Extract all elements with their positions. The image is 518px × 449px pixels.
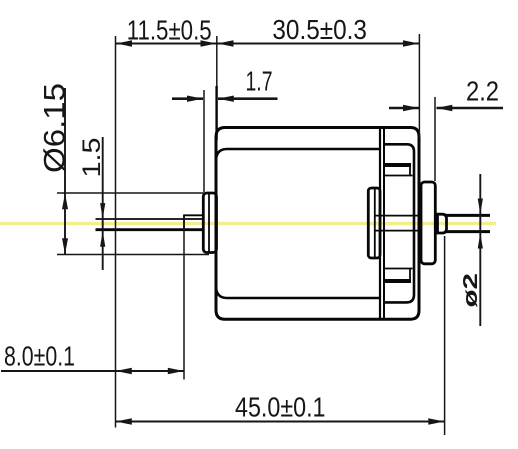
left shaft top line [96, 218, 205, 220]
front flange inner line [208, 194, 210, 252]
dimension 8.0±0.1 [1, 370, 184, 372]
svg-text:30.5±0.3: 30.5±0.3 [272, 14, 367, 45]
svg-text:ø2: ø2 [460, 273, 482, 308]
rear bearing hub [421, 182, 435, 264]
extension line flange front [203, 90, 205, 192]
end cap inner profile [384, 144, 414, 302]
svg-text:45.0±0.1: 45.0±0.1 [235, 392, 326, 423]
seam vertical right [383, 129, 385, 318]
extension line front face [216, 36, 218, 88]
extension line collar end [444, 236, 446, 435]
dimension 30.5±0.3 [217, 43, 419, 45]
svg-text:2.2: 2.2 [466, 76, 499, 107]
front face upper edge line [215, 86, 217, 140]
brush notch bottom thin line [384, 268, 413, 270]
dimension 2.2 [389, 107, 419, 110]
dimension 1.7 [172, 97, 203, 100]
dimension Ø6.15 [64, 88, 66, 255]
front boss left edge [183, 214, 185, 231]
shaft through cap bottom [375, 230, 421, 232]
internal rear bearing block [368, 188, 380, 258]
dimension 11.5±0.5 [116, 43, 218, 45]
svg-text:1.5: 1.5 [78, 138, 106, 178]
right shaft bottom line [446, 230, 490, 233]
seam vertical left [379, 129, 381, 318]
extension line shaft tip [115, 36, 117, 428]
extension line boss face [183, 217, 185, 380]
shaft through cap top [375, 215, 421, 217]
front flange plate [203, 193, 216, 253]
right shaft top line [446, 214, 490, 217]
can inner bottom seam line [216, 287, 380, 298]
rear bearing inner line [374, 189, 376, 257]
extension line cap face [418, 34, 420, 138]
extension line flange top [57, 192, 205, 194]
dimension 45.0±0.1 [116, 421, 445, 423]
front boss top line [184, 214, 204, 216]
dimension ø2 [479, 174, 481, 326]
dimension 1.5 [102, 137, 104, 270]
can inner top seam line [216, 149, 380, 160]
svg-text:11.5±0.5: 11.5±0.5 [127, 15, 212, 46]
motor can outer profile with end cap [216, 128, 419, 320]
svg-text:1.7: 1.7 [246, 66, 273, 97]
yellow centerline [0, 222, 496, 225]
extension line hub face [434, 97, 436, 181]
shaft collar [438, 214, 447, 233]
extension line flange bottom [57, 254, 209, 256]
brush notch top step [409, 165, 411, 176]
brush notch top thin line [384, 175, 413, 177]
svg-text:8.0±0.1: 8.0±0.1 [4, 341, 75, 372]
brush notch top thick line [384, 163, 411, 167]
left shaft bottom line [96, 228, 205, 231]
brush notch bottom thick line [384, 279, 411, 283]
brush notch bottom step [409, 269, 411, 282]
svg-text:Ø6.15: Ø6.15 [39, 83, 72, 173]
